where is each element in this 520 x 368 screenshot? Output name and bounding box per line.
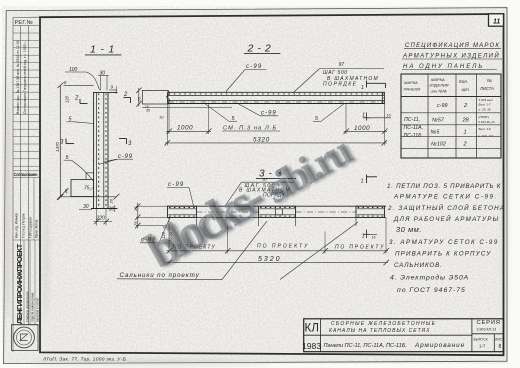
svg-text:КЛ: КЛ xyxy=(305,323,320,335)
svg-text:РЕГ.№: РЕГ.№ xyxy=(15,20,33,26)
svg-text:Нач.отд. Иванов: Нач.отд. Иванов xyxy=(15,213,19,238)
strip rotated annotations upper xyxy=(16,40,27,114)
left end cap w break xyxy=(142,90,168,104)
right section mark 1 top xyxy=(367,81,386,89)
svg-text:по ГОСТ 9467-75: по ГОСТ 9467-75 xyxy=(397,287,466,294)
svg-text:АРМАТУРЕ СЕТКИ С-99.: АРМАТУРЕ СЕТКИ С-99. xyxy=(393,194,498,201)
centerline dash-dot in gaps xyxy=(197,211,259,213)
svg-text:ДЛЯ РАБОЧЕЙ АРМАТУРЫ: ДЛЯ РАБОЧЕЙ АРМАТУРЫ xyxy=(393,215,499,223)
svg-text:Согласовано Гипроинж сетей отд: Согласовано Гипроинж сетей отд. т.с. 198… xyxy=(23,41,27,114)
svg-text:10: 10 xyxy=(159,115,164,120)
svg-text:3. АРМАТУРУ СЕТОК С-99: 3. АРМАТУРУ СЕТОК С-99 xyxy=(389,239,499,246)
svg-text:3.943 Кв-13: 3.943 Кв-13 xyxy=(478,120,495,124)
svg-text:(ПРИУ): (ПРИУ) xyxy=(479,115,490,119)
svg-text:с-99: с-99 xyxy=(246,64,262,70)
block 1 xyxy=(168,206,197,226)
svg-text:с-99: с-99 xyxy=(437,103,448,109)
right section mark 1 bottom + dim 10 xyxy=(363,104,391,122)
svg-text:16: 16 xyxy=(372,236,376,240)
svg-text:№57: №57 xyxy=(432,118,445,124)
svg-text:35: 35 xyxy=(146,109,150,113)
dim 5320 xyxy=(167,262,389,264)
svg-text:220: 220 xyxy=(96,216,106,222)
svg-text:1. ПЕТЛИ ПОЗ. 5 ПРИВАРИТЬ К: 1. ПЕТЛИ ПОЗ. 5 ПРИВАРИТЬ К xyxy=(387,183,501,190)
svg-text:1: 1 xyxy=(362,234,365,240)
svg-text:1: 1 xyxy=(361,85,364,91)
svg-text:Главное управление: Главное управление xyxy=(26,291,30,322)
svg-text:25: 25 xyxy=(133,206,138,212)
slab top chord xyxy=(168,91,385,93)
svg-text:ЛИСТА: ЛИСТА xyxy=(479,86,494,91)
svg-text:ЛГиП. Зак. 77. Тир. 1000 экз.: ЛГиП. Зак. 77. Тир. 1000 экз. У-Б. xyxy=(42,357,128,363)
round stamp xyxy=(12,325,39,351)
svg-text:2: 2 xyxy=(74,96,79,102)
strip signature cells xyxy=(33,178,35,240)
svg-text:отдела инженерных: отдела инженерных xyxy=(31,292,35,322)
svg-text:Гл.спец. Петров: Гл.спец. Петров xyxy=(22,213,26,238)
svg-text:№5: №5 xyxy=(431,130,441,136)
svg-text:20: 20 xyxy=(109,198,114,204)
svg-text:Сальники по проекту: Сальники по проекту xyxy=(120,272,200,279)
svg-text:1-7: 1-7 xyxy=(479,344,486,349)
left registration strip xyxy=(13,17,40,352)
table grid xyxy=(401,74,501,158)
block 3 xyxy=(356,206,385,226)
svg-text:ГИП Сидоров: ГИП Сидоров xyxy=(29,217,33,238)
svg-text:КАНАЛЫ НА ТЕПЛОВЫХ СЕТЯХ: КАНАЛЫ НА ТЕПЛОВЫХ СЕТЯХ xyxy=(329,328,430,334)
svg-text:30: 30 xyxy=(83,204,89,210)
svg-text:5320: 5320 xyxy=(258,256,282,263)
svg-text:ПО ПРОЕКТУ: ПО ПРОЕКТУ xyxy=(257,243,309,249)
svg-text:с-99: с-99 xyxy=(168,182,184,188)
svg-text:8: 8 xyxy=(499,344,502,350)
left dims of slab xyxy=(138,88,140,107)
slab bottom chord xyxy=(168,100,385,102)
section mark 2 right xyxy=(124,98,131,104)
svg-text:25: 25 xyxy=(136,96,141,102)
strip row lines xyxy=(13,33,40,325)
svg-text:1000: 1000 xyxy=(177,124,193,131)
svg-text:СЕРИЯ: СЕРИЯ xyxy=(477,320,501,326)
svg-text:1983: 1983 xyxy=(302,341,321,351)
svg-text:ПРИВАРИТЬ К КОРПУСУ: ПРИВАРИТЬ К КОРПУСУ xyxy=(395,251,491,258)
svg-text:75: 75 xyxy=(133,221,138,226)
svg-text:Пров. Котов: Пров. Котов xyxy=(35,219,39,238)
svg-text:Вып. 1-6: Вып. 1-6 xyxy=(479,127,492,131)
section mark 3 right xyxy=(119,139,127,145)
dim 1000 left xyxy=(168,104,170,134)
svg-text:НА ОДНУ ПАНЕЛЬ: НА ОДНУ ПАНЕЛЬ xyxy=(403,64,484,70)
band bottom line xyxy=(167,216,386,218)
panel bottom cap xyxy=(91,208,118,210)
panel vertical section lines xyxy=(93,92,95,208)
svg-text:2: 2 xyxy=(123,92,128,98)
svg-text:ПС-11А,: ПС-11А, xyxy=(404,125,424,131)
left extension lines and dims xyxy=(136,205,168,207)
svg-text:Кол.: Кол. xyxy=(459,79,468,84)
svg-text:ЛИСТ: ЛИСТ xyxy=(495,338,504,342)
rebar dotted lines xyxy=(98,94,100,207)
svg-text:30: 30 xyxy=(109,207,115,213)
svg-text:2. ЗАЩИТНЫЙ СЛОЙ БЕТОНА: 2. ЗАЩИТНЫЙ СЛОЙ БЕТОНА xyxy=(387,204,505,212)
svg-text:97: 97 xyxy=(339,62,345,68)
section mark 3 left xyxy=(66,139,74,144)
svg-text:л. 29, 30: л. 29, 30 xyxy=(478,108,491,112)
dim 1000 right xyxy=(345,104,347,134)
svg-text:Согласовано: Согласовано xyxy=(14,172,38,177)
left tall dimension line xyxy=(59,85,61,197)
svg-text:11: 11 xyxy=(493,19,500,26)
svg-text:2-2: 2-2 xyxy=(247,42,275,54)
left small dims top xyxy=(64,84,94,86)
svg-text:СМ. П.3 на Л.Б: СМ. П.3 на Л.Б xyxy=(223,126,277,132)
svg-text:ПАНЕЛИ: ПАНЕЛИ xyxy=(404,87,421,92)
svg-text:30 мм.: 30 мм. xyxy=(396,225,422,234)
svg-text:АРМАТУРНЫХ ИЗДЕЛИЙ: АРМАТУРНЫХ ИЗДЕЛИЙ xyxy=(402,52,500,60)
leaders to glands xyxy=(222,221,267,280)
svg-text:ИЗДЕЛИЯ: ИЗДЕЛИЯ xyxy=(430,83,449,88)
bottom dim line A xyxy=(60,196,117,198)
svg-text:1-1: 1-1 xyxy=(90,44,119,56)
svg-text:9: 9 xyxy=(111,85,114,90)
svg-text:№: № xyxy=(487,78,492,83)
dim 5320 xyxy=(167,104,169,146)
section mark 1 top xyxy=(367,175,378,184)
dim 220 xyxy=(95,209,97,226)
svg-text:5320: 5320 xyxy=(253,136,270,143)
svg-text:28: 28 xyxy=(462,118,470,124)
svg-text:1000: 1000 xyxy=(354,125,370,132)
svg-text:75: 75 xyxy=(84,186,90,192)
svg-text:каналов и сетей: каналов и сетей xyxy=(36,298,40,322)
svg-text:шт: шт xyxy=(462,87,470,92)
svg-text:МАРКА: МАРКА xyxy=(431,77,445,82)
svg-text:Взамен арх. № 1347-58 инв. № 2: Взамен арх. № 1347-58 инв. № 2816 от 12.… xyxy=(16,40,20,114)
svg-text:3.903 КЛ-13: 3.903 КЛ-13 xyxy=(477,328,497,332)
svg-text:1: 1 xyxy=(362,113,365,119)
svg-text:СПЕЦИФИКАЦИЯ МАРОК: СПЕЦИФИКАЦИЯ МАРОК xyxy=(405,43,500,49)
svg-text:Армирование: Армирование xyxy=(414,342,465,349)
svg-text:ВЫПУСК: ВЫПУСК xyxy=(474,338,488,342)
svg-text:3.943 вып.: 3.943 вып. xyxy=(479,98,494,102)
svg-text:ПО ПРОЕКТУ: ПО ПРОЕКТУ xyxy=(335,244,385,250)
svg-text:СБОРНЫЕ ЖЕЛЕЗОБЕТОННЫЕ: СБОРНЫЕ ЖЕЛЕЗОБЕТОННЫЕ xyxy=(331,321,436,327)
LENGIPROINZHPROEKT vertical xyxy=(24,240,35,325)
svg-text:ПОРЯДКЕ: ПОРЯДКЕ xyxy=(323,81,358,87)
svg-text:1: 1 xyxy=(361,179,364,185)
section mark 1 bottom xyxy=(363,230,377,239)
gland box on panel xyxy=(71,173,94,197)
svg-text:ЛЕНГИПРОИНЖПРОЕКТ: ЛЕНГИПРОИНЖПРОЕКТ xyxy=(15,243,24,324)
po proektu dim line xyxy=(168,226,170,254)
svg-text:4. Электроды Э50А: 4. Электроды Э50А xyxy=(390,274,469,282)
col 4 sheet refs xyxy=(477,98,495,138)
band top line xyxy=(167,205,386,207)
panel top cap xyxy=(93,91,118,93)
svg-text:ПС-11,: ПС-11, xyxy=(404,117,420,123)
svg-text:Вып. 1-7: Вып. 1-7 xyxy=(479,103,492,107)
svg-text:ПС-11Б: ПС-11Б xyxy=(404,133,423,139)
svg-text:л. 103, 113: л. 103, 113 xyxy=(477,134,494,138)
svg-text:САЛЬНИКОВ.: САЛЬНИКОВ. xyxy=(394,262,443,269)
svg-text:№102: №102 xyxy=(431,142,446,148)
svg-text:120: 120 xyxy=(65,95,70,103)
block 2 xyxy=(259,206,296,226)
right end cap xyxy=(381,92,383,104)
svg-text:МАРКА: МАРКА xyxy=(404,80,418,85)
sheet number box 11 xyxy=(489,14,504,26)
svg-text:или №№: или №№ xyxy=(431,89,448,94)
svg-text:1: 1 xyxy=(464,130,467,136)
svg-text:Панели ПС-11, ПС-11А, ПС-11Б.: Панели ПС-11, ПС-11А, ПС-11Б. xyxy=(324,343,407,349)
section mark 2 left xyxy=(80,99,88,104)
